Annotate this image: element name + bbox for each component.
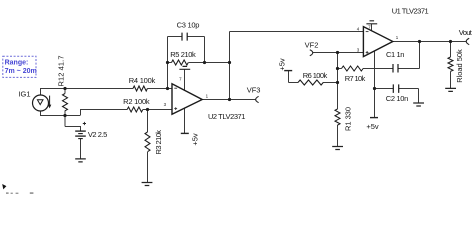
svg-text:Range:: Range:	[5, 60, 29, 67]
svg-text:V2 2.5: V2 2.5	[88, 130, 108, 139]
svg-text:R6 100k: R6 100k	[303, 71, 328, 80]
svg-text:R1 330: R1 330	[344, 107, 353, 131]
svg-text:C3 10p: C3 10p	[177, 21, 200, 30]
svg-text:U1 TLV2371: U1 TLV2371	[392, 6, 429, 15]
svg-text:+5v: +5v	[191, 133, 200, 146]
svg-text:IG1: IG1	[18, 90, 30, 99]
svg-text:R2 100k: R2 100k	[123, 97, 150, 106]
svg-text:+5v: +5v	[278, 58, 287, 71]
svg-text:R3 210k: R3 210k	[154, 130, 163, 155]
svg-text:R7 10k: R7 10k	[345, 74, 366, 83]
svg-text:C2 10n: C2 10n	[386, 94, 409, 103]
svg-text:VF3: VF3	[247, 86, 261, 95]
svg-text:C1 1n: C1 1n	[386, 50, 405, 59]
svg-text:R4 100k: R4 100k	[129, 76, 156, 85]
svg-text:Vout: Vout	[459, 28, 473, 37]
svg-text:Rload 50k: Rload 50k	[455, 49, 464, 83]
svg-text:U2 TLV2371: U2 TLV2371	[208, 112, 246, 121]
svg-text:7m ~ 20m: 7m ~ 20m	[5, 68, 37, 75]
svg-text:VF2: VF2	[305, 40, 319, 49]
svg-text:R12 41.7: R12 41.7	[57, 56, 66, 87]
svg-text:+5v: +5v	[366, 122, 379, 131]
svg-text:R5 210k: R5 210k	[170, 50, 196, 59]
